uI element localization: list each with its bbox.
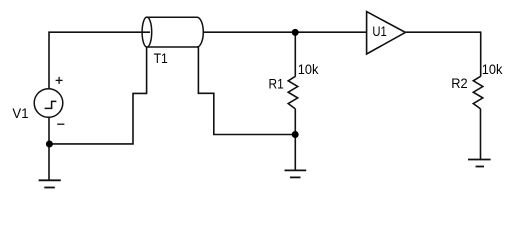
resistor R2: [473, 76, 483, 109]
svg-text:V1: V1: [12, 105, 28, 121]
wire V1 top to T1 input: [49, 32, 150, 89]
wire T1 output to U1 input: [203, 31, 369, 33]
wire T1 left shield to V1 bottom: [49, 47, 146, 144]
wire V1 bottom lead: [48, 117, 50, 180]
svg-text:T1: T1: [154, 50, 168, 66]
transmission line T1: [142, 17, 203, 47]
ground below R2: [468, 160, 491, 167]
node junction dot top of R1: [292, 29, 299, 36]
svg-text:R2: R2: [451, 75, 468, 91]
wire R1 top lead: [294, 32, 296, 76]
svg-text:10k: 10k: [298, 61, 320, 77]
svg-text:10k: 10k: [482, 61, 504, 77]
svg-text:R1: R1: [269, 75, 284, 91]
minus sign: [57, 123, 64, 125]
op-amp buffer U1: [367, 12, 406, 54]
wire U1 output to R2: [405, 32, 480, 76]
ground below R1: [285, 170, 307, 177]
voltage source V1: [34, 89, 63, 118]
svg-text:U1: U1: [372, 23, 387, 39]
plus sign: [56, 77, 63, 84]
wire R2 bottom lead: [480, 109, 482, 159]
ground below V1: [39, 180, 61, 187]
resistor R1: [288, 76, 298, 109]
node junction dot bottom of R1: [292, 131, 299, 138]
node junction dot below V1: [46, 141, 53, 148]
wire R1 bottom lead: [294, 109, 296, 170]
wire T1 right shield to R1 bottom: [198, 47, 295, 135]
